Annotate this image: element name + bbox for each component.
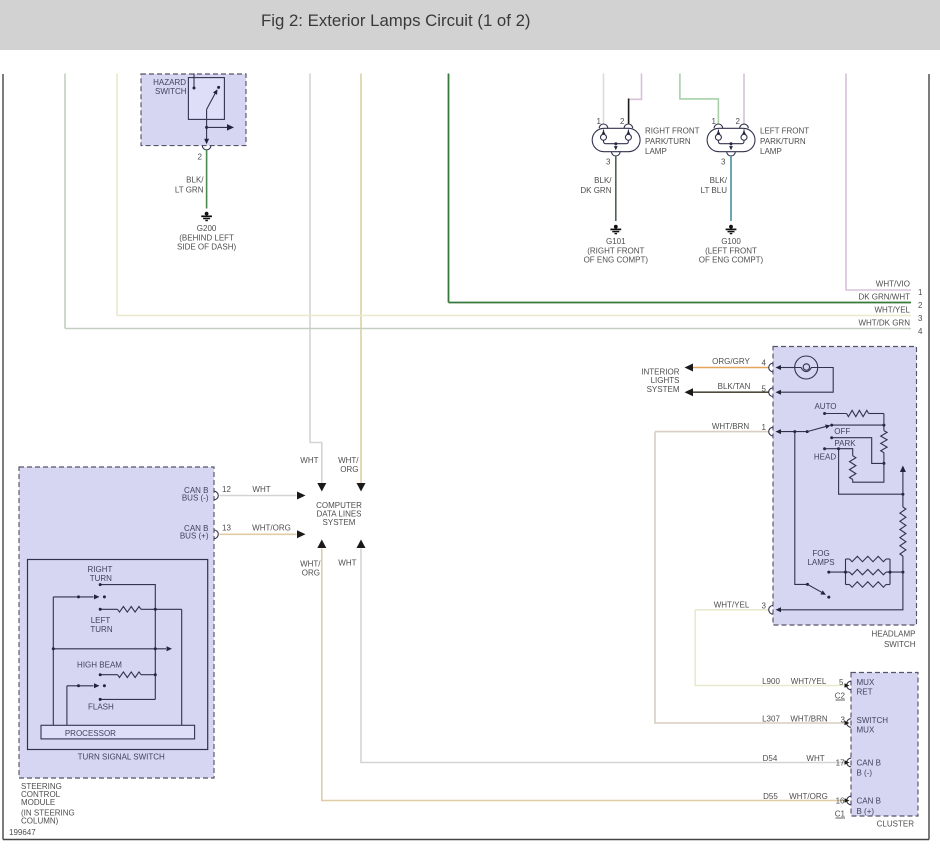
right turn switch arm (53, 596, 93, 598)
steering control module box (19, 467, 214, 778)
left lamp pin 1 bump (714, 124, 723, 128)
svg-text:RIGHT FRONT: RIGHT FRONT (645, 127, 700, 136)
module pin 13 bump (214, 530, 218, 539)
svg-text:(LEFT FRONT: (LEFT FRONT (705, 247, 757, 256)
svg-text:SWITCH: SWITCH (884, 640, 916, 649)
junction dot A (793, 430, 796, 433)
value label BLK/LT BLU (701, 176, 728, 195)
module pin 12 bump (214, 491, 218, 500)
svg-text:OF ENG COMPT): OF ENG COMPT) (584, 256, 649, 265)
node G100 label (699, 237, 764, 264)
svg-text:199647: 199647 (9, 828, 36, 837)
svg-text:DK GRN: DK GRN (580, 186, 611, 195)
svg-text:WHT: WHT (252, 485, 270, 494)
fog switch contact dot (827, 596, 830, 599)
svg-text:MUX: MUX (857, 678, 875, 687)
cluster pin 17 bump (847, 758, 851, 767)
cluster pin 3 bump (847, 719, 851, 728)
svg-text:WHT/DK GRN: WHT/DK GRN (858, 319, 910, 328)
svg-text:1: 1 (597, 117, 602, 126)
svg-text:WHT/ORG: WHT/ORG (789, 792, 828, 801)
right turn feed dot (99, 583, 102, 586)
HEAD branch wire to up arrow (839, 449, 903, 495)
node INTERIOR LIGHTS SYSTEM (641, 367, 680, 394)
svg-text:1: 1 (712, 117, 717, 126)
wire DK GRN/WHT horizontal bus 2 (449, 302, 912, 304)
node COMPUTER DATA LINES SYSTEM (316, 501, 362, 527)
svg-text:ORG: ORG (340, 465, 358, 474)
wire to right lamp pin 1 (603, 74, 605, 125)
wire WHT/DK GRN horizontal bus 4 (65, 328, 911, 330)
pin 1 bump (769, 427, 773, 436)
PARK wire (825, 448, 839, 450)
wire BLK/TAN to interior lights (693, 391, 769, 393)
left lamp name label (760, 127, 809, 157)
node CAN B B(+) (857, 797, 881, 817)
svg-text:BLK/: BLK/ (186, 176, 204, 185)
arrow WHT up into system (357, 540, 366, 549)
right vertical to processor (181, 609, 183, 725)
svg-text:HEADLAMP: HEADLAMP (871, 630, 915, 639)
svg-text:TURN: TURN (90, 574, 112, 583)
svg-text:17: 17 (836, 759, 845, 768)
wire WHT/BRN from switch pin 1 (655, 431, 769, 433)
arrow WHT/ORG up into system (317, 540, 326, 549)
node SWITCH MUX (857, 716, 889, 735)
svg-text:1: 1 (918, 288, 923, 297)
wire DK GRN/WHT vertical from top (448, 74, 450, 303)
svg-text:SWITCH: SWITCH (155, 87, 187, 96)
svg-text:MODULE: MODULE (21, 798, 55, 807)
svg-text:LEFT FRONT: LEFT FRONT (760, 127, 809, 136)
label LEFT TURN (90, 616, 112, 634)
center row with arrow (53, 648, 166, 650)
node G101 label (584, 237, 649, 264)
label RIGHT TURN (88, 565, 113, 583)
svg-text:TURN: TURN (90, 625, 112, 634)
value label BLK/DK GRN (580, 176, 612, 195)
svg-text:LT BLU: LT BLU (701, 186, 728, 195)
svg-text:WHT/YEL: WHT/YEL (874, 306, 910, 315)
svg-text:SWITCH: SWITCH (857, 716, 889, 725)
svg-text:OFF: OFF (834, 427, 850, 436)
svg-text:OF ENG COMPT): OF ENG COMPT) (699, 256, 764, 265)
right lamp name label (645, 127, 700, 157)
wire WHT/DK GRN vertical from top (64, 74, 66, 329)
wire WHT/YEL horizontal bus 3 (117, 315, 911, 317)
title bar (0, 0, 940, 50)
svg-text:5: 5 (839, 678, 844, 687)
arrow WHT/ORG down into system (357, 483, 366, 492)
svg-text:2: 2 (198, 153, 203, 162)
headlamp selector arm (807, 426, 826, 431)
right turn feed wire (100, 585, 155, 700)
svg-text:WHT/BRN: WHT/BRN (790, 715, 828, 724)
svg-text:SYSTEM: SYSTEM (647, 385, 680, 394)
svg-text:C2: C2 (835, 691, 846, 700)
svg-text:COLUMN): COLUMN) (21, 817, 59, 826)
steering control module label (21, 782, 75, 826)
svg-text:WHT/: WHT/ (338, 456, 359, 465)
fog switch pivot dot (806, 583, 809, 586)
svg-text:13: 13 (222, 524, 231, 533)
svg-text:MUX: MUX (857, 726, 875, 735)
hazard branch arrow right (207, 126, 227, 128)
frame left border (2, 74, 4, 840)
svg-text:BUS (+): BUS (+) (180, 532, 209, 541)
wire BLK into hazard switch (193, 74, 195, 89)
AUTO contact dot (823, 412, 826, 415)
wire WHT/BRN vertical to cluster (655, 432, 846, 723)
frame bottom border (3, 839, 929, 841)
junction dot I (837, 447, 840, 450)
svg-text:BLK/: BLK/ (594, 176, 612, 185)
turn signal switch box (28, 560, 208, 750)
resistor long vertical (900, 494, 906, 572)
fog bank junction dots (844, 571, 847, 574)
svg-text:LIGHTS: LIGHTS (651, 376, 680, 385)
hazard arrow down to pin 2 (204, 139, 209, 145)
fog lamps resistor bank (829, 556, 903, 587)
flash contact dot (103, 684, 106, 687)
svg-text:WHT/ORG: WHT/ORG (252, 524, 291, 533)
node CAN B BUS (-) label (182, 486, 209, 503)
svg-text:LAMP: LAMP (760, 147, 782, 156)
svg-text:C1: C1 (835, 810, 846, 819)
svg-text:WHT/BRN: WHT/BRN (712, 422, 750, 431)
fog switch arm (808, 584, 822, 592)
right turn contact dot (103, 595, 106, 598)
svg-text:SIDE OF DASH): SIDE OF DASH) (177, 242, 236, 251)
svg-text:WHT/YEL: WHT/YEL (714, 601, 750, 610)
svg-text:RIGHT: RIGHT (88, 565, 113, 574)
ground G200 (201, 212, 212, 221)
wire WHT pin12 to data lines (220, 495, 297, 497)
svg-text:HIGH BEAM: HIGH BEAM (77, 660, 122, 669)
svg-text:B (-): B (-) (857, 769, 873, 778)
hazard switch box (141, 74, 246, 146)
svg-text:WHT/: WHT/ (300, 560, 321, 569)
svg-text:HAZARD: HAZARD (153, 78, 186, 87)
svg-text:G200: G200 (197, 224, 217, 233)
svg-text:WHT: WHT (300, 456, 318, 465)
svg-text:3: 3 (606, 158, 611, 167)
resistor below rail (881, 425, 887, 463)
wire BLK to right lamp pin 2 (628, 99, 630, 125)
wire WHT/YEL from switch pin 3 (695, 609, 768, 611)
wire WHT/VIO vertical long (846, 74, 911, 291)
net label WHT/ORG top (338, 456, 359, 474)
svg-text:5: 5 (762, 385, 767, 394)
svg-text:CAN B: CAN B (857, 759, 881, 768)
flash switch arm (67, 685, 94, 687)
junction dot K (901, 571, 904, 574)
wire WHT down to cluster (361, 549, 846, 763)
left lamp pin 3 bump (727, 152, 736, 156)
svg-text:16: 16 (836, 797, 845, 806)
pin 5 bump (769, 388, 773, 397)
svg-text:CAN B: CAN B (857, 797, 881, 806)
processor box (41, 725, 195, 739)
frame right border (928, 74, 930, 840)
svg-text:D54: D54 (763, 754, 778, 763)
label FOG LAMPS (807, 549, 834, 567)
wire WHT/ORG down to cluster (322, 549, 846, 801)
wire ORG/GRY to interior lights (693, 367, 769, 369)
junction dot F (882, 462, 885, 465)
svg-text:1: 1 (762, 423, 767, 432)
svg-text:SYSTEM: SYSTEM (323, 518, 356, 527)
svg-text:G100: G100 (721, 237, 741, 246)
headlamp switch box (773, 347, 917, 626)
svg-text:ORG: ORG (302, 569, 320, 578)
ground G101 (610, 225, 621, 234)
resistor AUTO (825, 410, 884, 425)
svg-text:BLK/: BLK/ (710, 176, 728, 185)
svg-text:3: 3 (841, 716, 846, 725)
svg-text:FLASH: FLASH (88, 702, 114, 711)
lamp right loop wire (781, 368, 833, 393)
left lamp pin 2 bump (740, 124, 749, 128)
hazard pin 2 bump (202, 146, 211, 150)
wire WHT/ORG pin13 to data lines (220, 533, 297, 535)
internal wire to pin 3 (781, 572, 903, 610)
left lamp center tap (730, 142, 733, 145)
up arrow (902, 472, 904, 494)
right lamp pin 1 bump (599, 124, 608, 128)
svg-text:4: 4 (918, 327, 923, 336)
svg-text:3: 3 (762, 602, 767, 611)
left lamp internal bulbs (715, 130, 747, 144)
value label BLK/LT GRN (175, 176, 204, 195)
hazard switch contact left (193, 87, 196, 90)
lamp symbol in headlamp switch (795, 356, 818, 379)
svg-text:ORG/GRY: ORG/GRY (712, 357, 750, 366)
svg-text:HEAD: HEAD (814, 453, 836, 462)
node CAN B B(-) (857, 759, 881, 778)
junction dot J (901, 493, 904, 496)
svg-text:3: 3 (721, 158, 726, 167)
wire WHT vertical from top to data-lines arrow (310, 74, 322, 484)
hazard junction dot (205, 126, 208, 129)
arrow WHT down into system (317, 483, 326, 492)
svg-text:WHT/YEL: WHT/YEL (791, 677, 827, 686)
wire BLK/LT GRN hazard to G200 (206, 150, 208, 209)
pin 3 bump (769, 606, 773, 615)
svg-text:CLUSTER: CLUSTER (877, 820, 915, 829)
svg-text:AUTO: AUTO (814, 402, 836, 411)
right lamp internal bulbs (601, 130, 632, 144)
svg-text:PARK/TURN: PARK/TURN (760, 137, 806, 146)
svg-text:2: 2 (918, 301, 923, 310)
hazard switch arm (207, 93, 216, 110)
svg-text:WHT: WHT (338, 559, 356, 568)
svg-text:RET: RET (857, 688, 873, 697)
svg-text:L307: L307 (762, 715, 780, 724)
resistor high beam (100, 672, 155, 678)
svg-text:BLK/TAN: BLK/TAN (718, 382, 751, 391)
OFF contact dot (830, 436, 833, 439)
svg-text:(BEHIND LEFT: (BEHIND LEFT (179, 234, 234, 243)
wire WHT/VIO to left lamp pin 2 (743, 74, 745, 125)
svg-text:D55: D55 (763, 792, 778, 801)
arrow WHT/ORG into data lines (297, 530, 306, 538)
svg-text:2: 2 (736, 117, 741, 126)
fog switch feed vertical (795, 432, 808, 585)
wire WHT/ORG vertical from top to data-lines arrow (360, 74, 362, 484)
svg-text:LAMP: LAMP (645, 147, 667, 156)
pin 4 bump (769, 363, 773, 372)
node MUX RET (857, 678, 875, 697)
svg-text:DK GRN/WHT: DK GRN/WHT (858, 293, 910, 302)
node CAN B BUS (+) label (180, 524, 209, 541)
cluster pin 5 bump (847, 681, 851, 690)
svg-text:PROCESSOR: PROCESSOR (65, 729, 116, 738)
right lamp center tap (614, 142, 617, 145)
lamp LEFT FRONT PARK/TURN connector body (707, 128, 755, 151)
right lamp pin 3 bump (612, 152, 621, 156)
lamp RIGHT FRONT PARK/TURN connector body (592, 128, 640, 151)
pivot dot B (806, 430, 809, 433)
hazard switch wire stub inside (193, 74, 195, 88)
wire LT GRN elbow to left lamp pin 1 (680, 74, 719, 125)
resistor turn signal upper (100, 607, 182, 613)
pin 4 internal wire (781, 367, 795, 369)
svg-text:FOG: FOG (812, 549, 829, 558)
wire WHT/YEL vertical to cluster (695, 610, 846, 686)
OFF wire (832, 438, 884, 464)
svg-text:12: 12 (222, 485, 231, 494)
svg-text:3: 3 (918, 314, 923, 323)
arrow WHT into data lines (297, 492, 306, 500)
wire BLK/LT BLU lamp to G100 (730, 156, 732, 221)
svg-text:WHT/VIO: WHT/VIO (876, 280, 910, 289)
svg-text:PARK/TURN: PARK/TURN (645, 137, 691, 146)
wire BLK/DK GRN lamp to G101 (615, 156, 617, 221)
svg-text:LT GRN: LT GRN (175, 186, 204, 195)
fog lead end dot (827, 571, 830, 574)
headlamp switch label (871, 630, 915, 650)
svg-text:L900: L900 (762, 677, 780, 686)
net label WHT/ORG bottom (300, 560, 321, 578)
ground G100 (726, 225, 737, 234)
hazard switch inner box (188, 78, 224, 120)
svg-text:4: 4 (762, 359, 767, 368)
node G200 label (177, 224, 236, 251)
left vertical to processor (52, 597, 54, 725)
cluster pin 16 bump (847, 796, 851, 805)
svg-text:WHT: WHT (806, 754, 824, 763)
pin 1 internal wire (781, 431, 807, 433)
hazard switch arm pivot wire down (206, 109, 208, 139)
resistor PARK branch (839, 449, 884, 483)
right lamp pin 2 bump (624, 124, 633, 128)
flash row wire (100, 698, 155, 700)
svg-text:BUS (-): BUS (-) (182, 494, 209, 503)
selector rail (832, 424, 884, 426)
hazard switch label (153, 78, 187, 96)
wire WHT/YEL vertical from top (116, 74, 118, 316)
svg-text:Fig 2: Exterior Lamps Circuit: Fig 2: Exterior Lamps Circuit (1 of 2) (261, 11, 531, 30)
svg-text:B (+): B (+) (857, 807, 875, 816)
flash vertical to processor (66, 686, 68, 726)
svg-text:PARK: PARK (834, 439, 856, 448)
svg-text:TURN SIGNAL SWITCH: TURN SIGNAL SWITCH (78, 753, 165, 762)
wire WHT/VIO stub to BLK elbow (630, 74, 642, 100)
PARK contact dot (823, 447, 826, 450)
svg-text:G101: G101 (606, 237, 626, 246)
svg-text:2: 2 (620, 117, 625, 126)
hazard switch contact right (217, 86, 220, 89)
svg-text:LAMPS: LAMPS (807, 558, 834, 567)
cluster box (851, 673, 918, 817)
svg-text:LEFT: LEFT (91, 616, 111, 625)
svg-text:(RIGHT FRONT: (RIGHT FRONT (587, 247, 644, 256)
